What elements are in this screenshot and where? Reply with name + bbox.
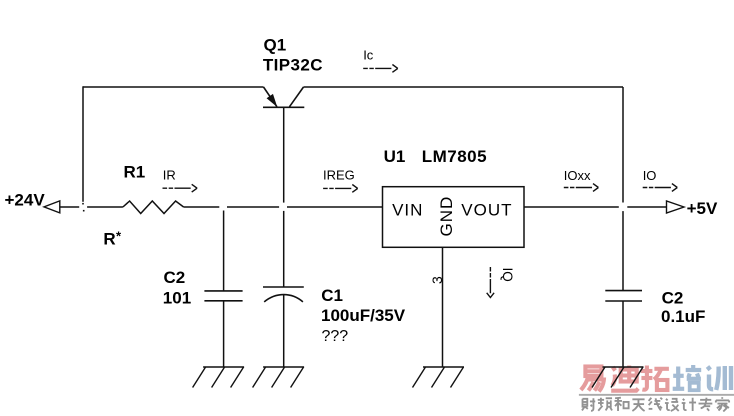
wire main rail seg G — [627, 206, 666, 208]
arrow IO — [643, 187, 671, 189]
svg-text:VOUT: VOUT — [461, 200, 512, 219]
transistor Q1 — [263, 87, 304, 107]
svg-text:0.1uF: 0.1uF — [661, 307, 705, 326]
wire main rail seg A — [60, 206, 80, 208]
watermark big text 易迪拓培训 — [581, 367, 604, 392]
svg-text:IO: IO — [643, 168, 657, 183]
wire C1 top lead — [283, 211, 285, 287]
watermark underline — [579, 394, 734, 396]
svg-text:IREG: IREG — [323, 168, 355, 183]
arrow IQ — [489, 267, 491, 293]
svg-text:R1: R1 — [124, 162, 146, 181]
svg-text:IQ: IQ — [500, 268, 515, 282]
wire C2a bottom lead — [223, 301, 225, 367]
svg-text:Ic: Ic — [363, 48, 374, 63]
port +24V — [44, 201, 60, 213]
svg-text:LM7805: LM7805 — [422, 147, 487, 166]
capacitor C1 — [263, 287, 304, 302]
wire top rail left — [83, 86, 264, 88]
ground 1 — [193, 367, 245, 388]
arrow IR — [163, 187, 191, 189]
node A junction dots — [82, 203, 84, 212]
svg-text:GND: GND — [437, 196, 456, 237]
svg-text:+5V: +5V — [687, 199, 718, 218]
watermark subtitle 射频和天线设计专家 — [582, 398, 595, 411]
wire top rail right — [304, 86, 624, 88]
wire C1 bottom lead — [283, 295, 285, 367]
svg-text:???: ??? — [322, 328, 349, 345]
ground 2 — [253, 367, 305, 388]
svg-text:C2: C2 — [662, 288, 684, 307]
svg-text:C1: C1 — [321, 286, 343, 305]
port +5V — [667, 201, 685, 213]
wire right vertical upper — [622, 87, 624, 203]
capacitor C2b — [605, 291, 642, 301]
svg-text:R: R — [103, 230, 115, 249]
svg-text:100uF/35V: 100uF/35V — [321, 306, 406, 325]
resistor R1 — [123, 201, 184, 214]
svg-text:C2: C2 — [164, 268, 186, 287]
svg-text:Q1: Q1 — [264, 36, 287, 55]
wire main rail seg B — [87, 206, 123, 208]
svg-text:VIN: VIN — [392, 200, 423, 219]
wire C2b top lead — [622, 211, 624, 291]
svg-text:3: 3 — [429, 276, 445, 284]
WATERMARK — [579, 365, 734, 412]
arrow IREG — [323, 187, 351, 189]
svg-text:U1: U1 — [384, 147, 406, 166]
svg-text:+24V: +24V — [5, 191, 46, 210]
ground 4 — [592, 367, 644, 388]
capacitor C2a — [204, 291, 242, 301]
arrow IOxx — [564, 187, 592, 189]
wire base lead upper — [283, 107, 285, 202]
wire GND pin lead — [442, 247, 444, 367]
svg-text:TIP32C: TIP32C — [263, 56, 323, 75]
op-amp U1 box — [383, 187, 525, 248]
wire main rail seg C — [184, 206, 220, 208]
svg-text:IOxx: IOxx — [564, 168, 591, 183]
wire main rail seg F — [524, 206, 619, 208]
wire main rail seg E — [287, 206, 383, 208]
arrow Ic — [363, 67, 391, 69]
wire main rail seg D — [227, 206, 279, 208]
wire C2a top lead — [223, 211, 225, 291]
wire left vertical — [82, 86, 84, 202]
ground 3 — [413, 367, 465, 388]
wire C2b bottom lead — [622, 301, 624, 367]
svg-text:IR: IR — [163, 168, 176, 183]
current arrows — [163, 65, 678, 298]
svg-text:101: 101 — [163, 288, 191, 307]
